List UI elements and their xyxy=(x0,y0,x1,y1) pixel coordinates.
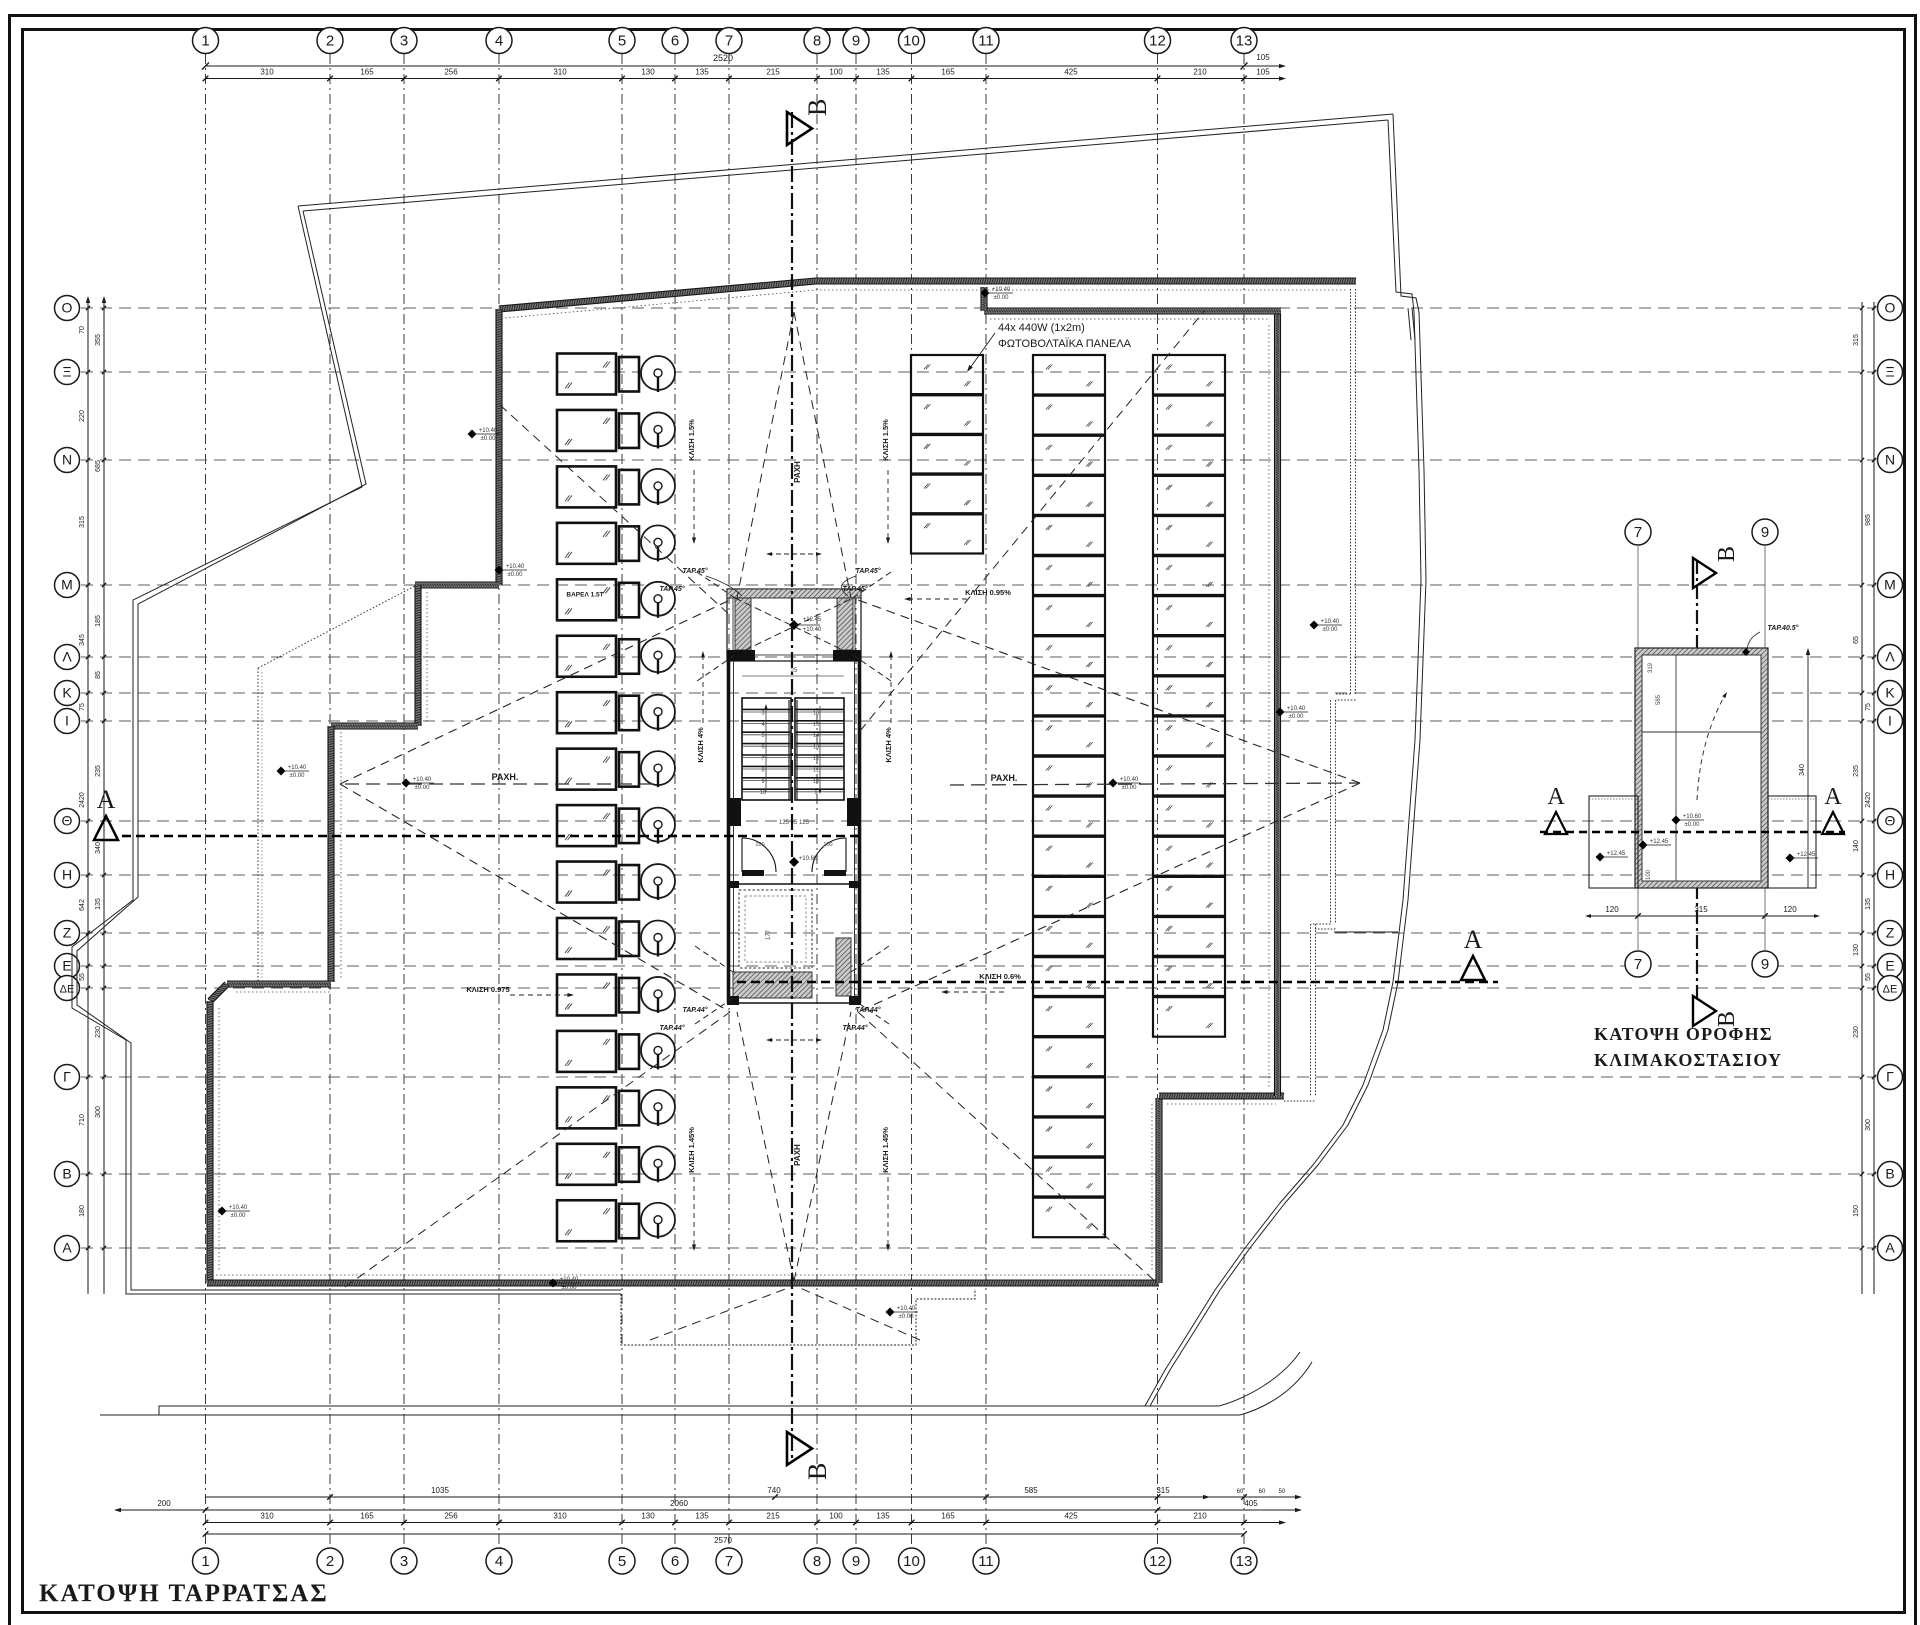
svg-text:105: 105 xyxy=(1256,53,1270,62)
svg-text:Ξ: Ξ xyxy=(62,364,71,380)
svg-text:180: 180 xyxy=(79,1205,86,1217)
svg-text:235: 235 xyxy=(95,765,102,777)
svg-text:B: B xyxy=(803,99,832,116)
stairwell core with skylight, stairs, elevator xyxy=(727,589,861,661)
svg-text:ΚΑΤΟΨΗ ΤΑΡΡΑΤΣΑΣ: ΚΑΤΟΨΗ ΤΑΡΡΑΤΣΑΣ xyxy=(39,1580,329,1607)
svg-text:2060: 2060 xyxy=(670,1499,688,1508)
svg-text:9: 9 xyxy=(814,790,817,796)
svg-text:Ε: Ε xyxy=(1885,958,1894,974)
svg-text:55: 55 xyxy=(79,973,86,981)
svg-text:Γ: Γ xyxy=(1886,1069,1894,1085)
svg-text:14: 14 xyxy=(813,733,819,739)
svg-text:Η: Η xyxy=(62,867,72,883)
svg-text:315: 315 xyxy=(1156,1486,1170,1495)
svg-text:ΚΛΙΣΗ 1.5%: ΚΛΙΣΗ 1.5% xyxy=(881,419,890,461)
svg-text:ΦΩΤΟΒΟΛΤΑΪΚΑ ΠΑΝΕΛΑ: ΦΩΤΟΒΟΛΤΑΪΚΑ ΠΑΝΕΛΑ xyxy=(998,338,1132,350)
svg-text:+10.40: +10.40 xyxy=(479,428,498,434)
svg-text:125 45 125: 125 45 125 xyxy=(779,820,810,826)
svg-text:6: 6 xyxy=(761,745,764,751)
svg-text:A: A xyxy=(1824,784,1842,810)
svg-text:±0.00: ±0.00 xyxy=(1685,822,1701,828)
svg-text:230: 230 xyxy=(95,1026,102,1038)
svg-text:ΚΛΙΣΗ 4%: ΚΛΙΣΗ 4% xyxy=(696,727,705,763)
svg-text:140: 140 xyxy=(1853,840,1860,852)
svg-text:ΤΑΡ.40.5°: ΤΑΡ.40.5° xyxy=(1768,624,1799,632)
svg-text:9: 9 xyxy=(852,1553,860,1570)
svg-text:12: 12 xyxy=(813,756,819,762)
svg-text:+12.45: +12.45 xyxy=(1650,839,1669,845)
svg-text:340: 340 xyxy=(1799,764,1806,776)
svg-text:Θ: Θ xyxy=(1885,813,1896,829)
svg-text:Ο: Ο xyxy=(62,300,73,316)
svg-text:315: 315 xyxy=(1694,905,1708,914)
svg-text:+10.40: +10.40 xyxy=(413,777,432,783)
svg-text:740: 740 xyxy=(767,1486,781,1495)
svg-text:ΡΑΧΗ: ΡΑΧΗ xyxy=(793,1144,802,1166)
svg-text:+10.40: +10.40 xyxy=(1321,619,1340,625)
svg-text:165: 165 xyxy=(360,68,374,77)
svg-text:+10.40: +10.40 xyxy=(288,765,307,771)
svg-text:ΡΑΧΗ: ΡΑΧΗ xyxy=(793,461,802,483)
column grid lines 1-13 with numbered circles xyxy=(205,54,207,1547)
svg-text:135: 135 xyxy=(876,68,890,77)
svg-text:2420: 2420 xyxy=(79,792,86,808)
svg-text:±0.00: ±0.00 xyxy=(562,1285,578,1291)
svg-text:B: B xyxy=(803,1463,832,1480)
svg-text:210: 210 xyxy=(1193,68,1207,77)
svg-text:ΡΑΧΗ.: ΡΑΧΗ. xyxy=(991,773,1018,783)
svg-text:6: 6 xyxy=(671,33,679,50)
svg-text:Κ: Κ xyxy=(62,685,72,701)
svg-text:8: 8 xyxy=(813,1553,821,1570)
solar water heater units row xyxy=(557,354,616,395)
svg-text:165: 165 xyxy=(941,1512,955,1521)
bottom dimension chains 2570/2060 xyxy=(205,1496,1296,1498)
svg-text:70: 70 xyxy=(79,326,86,334)
svg-text:120: 120 xyxy=(1783,905,1797,914)
svg-text:100: 100 xyxy=(829,68,843,77)
svg-text:340: 340 xyxy=(95,842,102,854)
svg-text:300: 300 xyxy=(1865,1119,1872,1131)
svg-text:ΤΑΡ.45°: ΤΑΡ.45° xyxy=(682,567,707,575)
svg-text:ΤΑΡ.44°: ΤΑΡ.44° xyxy=(842,1024,867,1032)
svg-text:1: 1 xyxy=(201,1553,209,1570)
svg-text:135: 135 xyxy=(695,68,709,77)
svg-text:ΤΑΡ.44°: ΤΑΡ.44° xyxy=(659,1024,684,1032)
svg-text:10: 10 xyxy=(813,779,819,785)
svg-text:1035: 1035 xyxy=(431,1486,449,1495)
svg-text:2570: 2570 xyxy=(714,1536,732,1545)
svg-text:ΚΛΙΣΗ 0.6%: ΚΛΙΣΗ 0.6% xyxy=(979,972,1021,981)
svg-text:3: 3 xyxy=(400,33,408,50)
svg-text:ΚΛΙΣΗ 1.45%: ΚΛΙΣΗ 1.45% xyxy=(881,1127,890,1173)
svg-text:Ν: Ν xyxy=(1885,452,1895,468)
svg-text:Μ: Μ xyxy=(61,577,73,593)
svg-text:Ι: Ι xyxy=(65,713,69,729)
svg-text:200: 200 xyxy=(157,1499,171,1508)
svg-text:185: 185 xyxy=(95,615,102,627)
svg-text:256: 256 xyxy=(444,68,458,77)
svg-text:215: 215 xyxy=(766,68,780,77)
svg-text:60: 60 xyxy=(1259,1489,1266,1495)
svg-text:+10.40: +10.40 xyxy=(1120,777,1139,783)
svg-text:5: 5 xyxy=(618,33,626,50)
svg-text:15: 15 xyxy=(813,722,819,728)
svg-text:165: 165 xyxy=(360,1512,374,1521)
svg-text:Θ: Θ xyxy=(62,813,73,829)
svg-text:13: 13 xyxy=(1236,1553,1253,1570)
svg-text:13: 13 xyxy=(813,745,819,751)
svg-text:75: 75 xyxy=(1865,703,1872,711)
svg-text:±0.00: ±0.00 xyxy=(1289,714,1305,720)
roof ridge/valley dashed lines and slope arrows xyxy=(340,600,730,784)
svg-text:Ζ: Ζ xyxy=(1886,925,1895,941)
svg-text:11: 11 xyxy=(978,1553,994,1570)
svg-text:ΔΕ: ΔΕ xyxy=(1883,984,1898,996)
svg-text:10: 10 xyxy=(760,790,766,796)
svg-text:A: A xyxy=(1464,925,1483,954)
svg-text:ΚΛΙΣΗ 4%: ΚΛΙΣΗ 4% xyxy=(884,727,893,763)
svg-text:215: 215 xyxy=(766,1512,780,1521)
svg-text:100: 100 xyxy=(755,842,764,848)
svg-text:685: 685 xyxy=(95,460,102,472)
building parapet walls (hatched) xyxy=(499,281,816,309)
svg-text:130: 130 xyxy=(641,68,655,77)
parcel boundary double outline xyxy=(298,114,1393,206)
svg-text:11: 11 xyxy=(813,767,819,773)
svg-text:3: 3 xyxy=(761,710,764,716)
svg-text:11: 11 xyxy=(978,33,994,50)
svg-text:Γ: Γ xyxy=(63,1069,71,1085)
svg-text:+10.40: +10.40 xyxy=(506,564,525,570)
svg-text:9: 9 xyxy=(852,33,860,50)
svg-text:585: 585 xyxy=(1656,694,1662,705)
svg-text:±0.00: ±0.00 xyxy=(508,572,524,578)
svg-text:9: 9 xyxy=(1761,956,1769,973)
svg-text:±0.00: ±0.00 xyxy=(994,295,1010,301)
svg-text:±0.00: ±0.00 xyxy=(1122,785,1138,791)
svg-text:3: 3 xyxy=(400,1553,408,1570)
svg-text:177: 177 xyxy=(766,929,772,940)
svg-text:135: 135 xyxy=(695,1512,709,1521)
svg-text:2520: 2520 xyxy=(713,53,733,63)
svg-text:+10.40: +10.40 xyxy=(560,1277,579,1283)
svg-text:+12.45: +12.45 xyxy=(803,617,822,623)
svg-text:Α: Α xyxy=(1885,1240,1895,1256)
svg-text:ΚΛΙΣΗ 1.45%: ΚΛΙΣΗ 1.45% xyxy=(687,1127,696,1173)
svg-text:230: 230 xyxy=(1853,1026,1860,1038)
svg-text:315: 315 xyxy=(1853,334,1860,346)
svg-text:585: 585 xyxy=(1024,1486,1038,1495)
svg-text:2420: 2420 xyxy=(1865,792,1872,808)
svg-text:ΤΑΡ.45°: ΤΑΡ.45° xyxy=(659,585,684,593)
svg-text:5: 5 xyxy=(618,1553,626,1570)
svg-text:425: 425 xyxy=(1064,68,1078,77)
svg-text:13: 13 xyxy=(1236,33,1253,50)
svg-text:2: 2 xyxy=(326,1553,334,1570)
svg-text:+10.60: +10.60 xyxy=(799,856,818,862)
svg-text:Λ: Λ xyxy=(62,649,72,665)
svg-text:Ξ: Ξ xyxy=(1885,364,1894,380)
svg-text:65: 65 xyxy=(1853,636,1860,644)
svg-text:425: 425 xyxy=(1064,1512,1078,1521)
svg-text:ΒΑΡΕΛ 1.5Τ: ΒΑΡΕΛ 1.5Τ xyxy=(566,591,603,598)
svg-text:+10.40: +10.40 xyxy=(1287,706,1306,712)
svg-text:Κ: Κ xyxy=(1885,685,1895,701)
svg-text:315: 315 xyxy=(79,516,86,528)
svg-text:9: 9 xyxy=(1761,524,1769,541)
svg-text:985: 985 xyxy=(1865,514,1872,526)
svg-text:+10.40: +10.40 xyxy=(897,1306,916,1312)
svg-text:150: 150 xyxy=(1853,1205,1860,1217)
svg-text:ΚΛΙΜΑΚΟΣΤΑΣΙΟΥ: ΚΛΙΜΑΚΟΣΤΑΣΙΟΥ xyxy=(1594,1050,1782,1070)
svg-text:120: 120 xyxy=(1605,905,1619,914)
svg-text:310: 310 xyxy=(260,68,274,77)
stair roof plan (KATOPSI OROFIS KLIMAKOSTASIOU) xyxy=(1625,519,1651,545)
svg-text:710: 710 xyxy=(79,1114,86,1126)
svg-text:235: 235 xyxy=(1853,765,1860,777)
svg-text:135: 135 xyxy=(1865,898,1872,910)
svg-text:4: 4 xyxy=(495,1553,503,1570)
svg-text:4: 4 xyxy=(761,722,764,728)
svg-text:+10.40: +10.40 xyxy=(229,1205,248,1211)
svg-text:Β: Β xyxy=(62,1166,71,1182)
svg-text:12: 12 xyxy=(1149,1553,1166,1570)
svg-text:319: 319 xyxy=(1648,662,1654,673)
svg-text:Α: Α xyxy=(62,1240,72,1256)
photovoltaic panel arrays 44x440W xyxy=(911,355,983,554)
svg-text:256: 256 xyxy=(444,1512,458,1521)
svg-text:B: B xyxy=(1714,546,1740,562)
svg-text:+12.45: +12.45 xyxy=(1607,851,1626,857)
svg-text:135: 135 xyxy=(95,898,102,910)
svg-text:345: 345 xyxy=(79,634,86,646)
svg-text:Ε: Ε xyxy=(62,958,71,974)
svg-text:7: 7 xyxy=(1634,524,1642,541)
svg-text:±0.00: ±0.00 xyxy=(290,773,306,779)
svg-text:210: 210 xyxy=(1193,1512,1207,1521)
svg-text:6: 6 xyxy=(671,1553,679,1570)
svg-text:Η: Η xyxy=(1885,867,1895,883)
svg-text:12: 12 xyxy=(1149,33,1166,50)
svg-text:4: 4 xyxy=(495,33,503,50)
svg-text:Ν: Ν xyxy=(62,452,72,468)
svg-text:+12.45: +12.45 xyxy=(1797,852,1816,858)
svg-text:ΤΑΡ.44°: ΤΑΡ.44° xyxy=(682,1006,707,1014)
svg-text:±0.00: ±0.00 xyxy=(899,1314,915,1320)
svg-text:±0.00: ±0.00 xyxy=(415,785,431,791)
svg-text:165: 165 xyxy=(941,68,955,77)
svg-text:105: 105 xyxy=(1256,68,1270,77)
svg-text:7: 7 xyxy=(725,1553,733,1570)
svg-text:Ζ: Ζ xyxy=(63,925,72,941)
svg-text:8: 8 xyxy=(761,767,764,773)
svg-text:A: A xyxy=(1547,784,1565,810)
svg-text:405: 405 xyxy=(1244,1499,1258,1508)
svg-text:8: 8 xyxy=(813,33,821,50)
svg-text:ΚΛΙΣΗ 1.5%: ΚΛΙΣΗ 1.5% xyxy=(687,419,696,461)
svg-text:ΚΛΙΣΗ 0.95%: ΚΛΙΣΗ 0.95% xyxy=(965,588,1011,597)
svg-text:355: 355 xyxy=(95,334,102,346)
svg-text:10: 10 xyxy=(903,33,920,50)
svg-text:ΡΑΧΗ.: ΡΑΧΗ. xyxy=(492,772,519,782)
svg-text:A: A xyxy=(97,785,116,814)
svg-text:2: 2 xyxy=(326,33,334,50)
svg-text:Μ: Μ xyxy=(1884,577,1896,593)
svg-text:642: 642 xyxy=(79,899,86,911)
svg-text:100: 100 xyxy=(1646,869,1652,880)
svg-text:220: 220 xyxy=(79,410,86,422)
svg-text:85: 85 xyxy=(95,671,102,679)
svg-text:ΚΑΤΟΨΗ ΟΡΟΦΗΣ: ΚΑΤΟΨΗ ΟΡΟΦΗΣ xyxy=(1594,1024,1773,1044)
svg-text:7: 7 xyxy=(1634,956,1642,973)
svg-text:60: 60 xyxy=(1237,1489,1244,1495)
svg-text:ΚΛΙΣΗ 0.975: ΚΛΙΣΗ 0.975 xyxy=(466,985,509,994)
svg-text:310: 310 xyxy=(260,1512,274,1521)
svg-text:50: 50 xyxy=(1279,1489,1286,1495)
svg-text:130: 130 xyxy=(1853,944,1860,956)
svg-text:9: 9 xyxy=(761,779,764,785)
svg-text:100: 100 xyxy=(829,1512,843,1521)
svg-text:+10.60: +10.60 xyxy=(1683,814,1702,820)
svg-text:5: 5 xyxy=(761,733,764,739)
svg-text:Β: Β xyxy=(1885,1166,1894,1182)
svg-text:135: 135 xyxy=(876,1512,890,1521)
svg-text:130: 130 xyxy=(641,1512,655,1521)
svg-text:Λ: Λ xyxy=(1885,649,1895,665)
svg-text:310: 310 xyxy=(553,68,567,77)
svg-text:Ο: Ο xyxy=(1885,300,1896,316)
svg-text:ΤΑΡ.45°: ΤΑΡ.45° xyxy=(855,567,880,575)
svg-text:10: 10 xyxy=(903,1553,920,1570)
svg-text:±0.00: ±0.00 xyxy=(1323,627,1339,633)
top dimension chain 2520 xyxy=(205,65,1280,67)
svg-text:300: 300 xyxy=(95,1106,102,1118)
svg-text:±0.00: ±0.00 xyxy=(231,1213,247,1219)
row grid lines A-O with lettered circles xyxy=(81,307,1876,309)
svg-text:16: 16 xyxy=(813,710,819,716)
svg-text:55: 55 xyxy=(1865,973,1872,981)
svg-text:±0.00: ±0.00 xyxy=(481,436,497,442)
svg-text:Ι: Ι xyxy=(1888,713,1892,729)
svg-text:7: 7 xyxy=(725,33,733,50)
svg-text:ΤΑΡ.45°: ΤΑΡ.45° xyxy=(842,585,867,593)
svg-text:1: 1 xyxy=(201,33,209,50)
svg-text:+10.40: +10.40 xyxy=(803,627,822,633)
svg-text:44x 440W (1x2m): 44x 440W (1x2m) xyxy=(998,322,1085,334)
svg-text:75: 75 xyxy=(79,703,86,711)
svg-text:100: 100 xyxy=(823,842,832,848)
svg-text:310: 310 xyxy=(553,1512,567,1521)
svg-text:7: 7 xyxy=(761,756,764,762)
svg-text:+10.40: +10.40 xyxy=(992,287,1011,293)
